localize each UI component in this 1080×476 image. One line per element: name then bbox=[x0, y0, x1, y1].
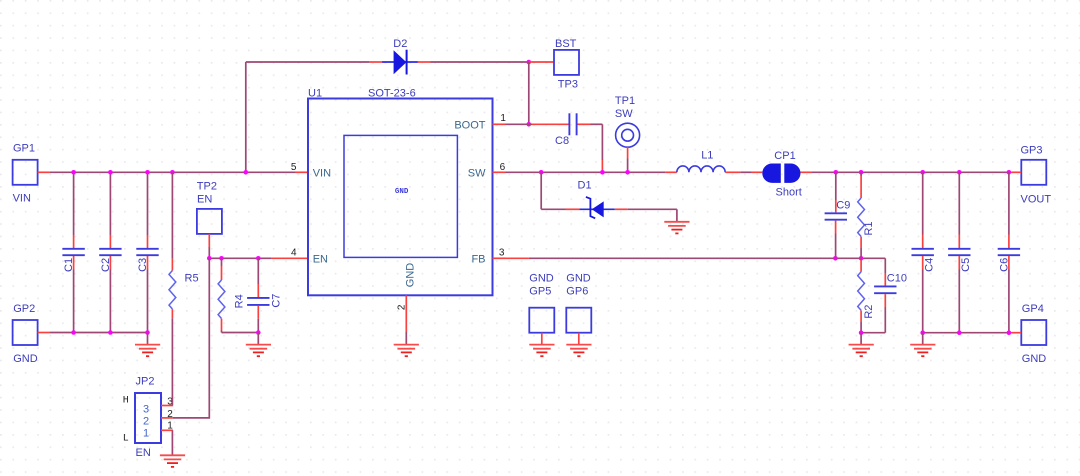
resistor R5 bbox=[169, 172, 199, 318]
svg-text:VOUT: VOUT bbox=[1021, 193, 1052, 205]
svg-text:TP2: TP2 bbox=[197, 181, 217, 193]
svg-text:3: 3 bbox=[499, 247, 505, 258]
capacitor C1 bbox=[62, 249, 84, 272]
svg-text:EN: EN bbox=[313, 254, 328, 266]
U1 pin 2 GND bbox=[396, 263, 416, 345]
node junction dot C7 bottom bbox=[256, 330, 261, 335]
svg-text:L1: L1 bbox=[701, 149, 713, 161]
resistor R2 bbox=[858, 258, 876, 332]
ground at GP5 bbox=[529, 345, 554, 357]
ground at D1 bbox=[664, 222, 689, 234]
svg-text:JP2: JP2 bbox=[136, 376, 155, 388]
U1 pin 3 FB bbox=[471, 247, 505, 265]
wire R4-C7 bottom bbox=[222, 332, 259, 334]
capacitor C5 bbox=[948, 172, 972, 332]
wire VIN rail bbox=[38, 171, 308, 173]
svg-text:GND: GND bbox=[404, 263, 416, 288]
svg-text:L: L bbox=[123, 433, 129, 444]
svg-text:C4: C4 bbox=[923, 258, 935, 272]
svg-text:BST: BST bbox=[555, 38, 577, 50]
wire JP2 pin 2 to EN node bbox=[173, 258, 209, 418]
svg-text:C5: C5 bbox=[960, 258, 972, 272]
capacitor C4 bbox=[912, 172, 936, 332]
svg-text:GP4: GP4 bbox=[1022, 303, 1044, 315]
svg-text:C3: C3 bbox=[137, 258, 149, 272]
U1 pin 5 VIN bbox=[291, 162, 331, 180]
svg-text:3: 3 bbox=[143, 403, 149, 415]
ground at C4 bbox=[910, 333, 935, 357]
svg-text:C1: C1 bbox=[63, 258, 75, 272]
capacitor C3 bbox=[136, 249, 158, 272]
svg-text:GP6: GP6 bbox=[566, 286, 588, 298]
JP2 pin 2 bbox=[161, 409, 173, 420]
port GP6 (GND) bbox=[566, 272, 591, 344]
ground at JP2 pin 1 bbox=[160, 455, 185, 467]
svg-text:GND: GND bbox=[1022, 353, 1047, 365]
svg-text:U1: U1 bbox=[308, 87, 322, 99]
node junction dots VIN rail bbox=[71, 170, 248, 175]
svg-text:1: 1 bbox=[500, 113, 506, 124]
ground at R2 bbox=[849, 333, 874, 357]
port GP5 (GND) bbox=[529, 272, 554, 344]
svg-text:GND: GND bbox=[529, 272, 554, 284]
port GP4 bbox=[1021, 303, 1046, 365]
test point TP1 SW bbox=[615, 95, 640, 173]
svg-text:CP1: CP1 bbox=[774, 150, 795, 162]
jumper JP2 bbox=[123, 376, 161, 459]
capacitor C2 bbox=[99, 249, 121, 272]
wire BST node to BOOT bbox=[528, 62, 530, 124]
test point TP3 BST bbox=[529, 38, 579, 91]
diode D1 (zener) bbox=[541, 172, 628, 218]
U1 pin 4 EN bbox=[291, 247, 328, 265]
port GP3 bbox=[1021, 144, 1052, 205]
svg-text:1: 1 bbox=[143, 427, 149, 439]
jumper CP1 Short bbox=[762, 150, 801, 198]
wire C2 top bbox=[109, 172, 111, 248]
PORTS-LEFT bbox=[13, 143, 1052, 366]
node junction dots VOUT rail bbox=[834, 170, 1012, 175]
wire C8 down to SW bbox=[601, 124, 603, 172]
node junction dots GND rail left bbox=[71, 330, 150, 335]
test point TP2 bbox=[197, 181, 222, 259]
svg-text:FB: FB bbox=[471, 254, 485, 266]
svg-text:GP1: GP1 bbox=[13, 143, 35, 155]
wire R2-C10 bottom bbox=[861, 332, 885, 334]
svg-text:R5: R5 bbox=[185, 273, 199, 285]
capacitor C8 bbox=[529, 113, 603, 147]
svg-text:C2: C2 bbox=[100, 258, 112, 272]
svg-text:GP5: GP5 bbox=[529, 286, 551, 298]
wire JP2 pin 1 to ground bbox=[171, 430, 173, 455]
svg-text:4: 4 bbox=[291, 247, 297, 258]
wire C3 top bbox=[147, 172, 149, 248]
diode D2 bbox=[369, 38, 431, 74]
wire L1 to CP1 bbox=[725, 171, 762, 173]
port GP1 bbox=[13, 143, 38, 205]
ground at R4/C7 bbox=[246, 333, 271, 357]
capacitor C7 bbox=[247, 258, 282, 332]
svg-text:2: 2 bbox=[143, 416, 149, 428]
svg-text:C6: C6 bbox=[998, 258, 1010, 272]
svg-text:D2: D2 bbox=[393, 38, 407, 50]
port GP2 bbox=[13, 303, 38, 365]
svg-text:R2: R2 bbox=[863, 305, 875, 319]
wire GND rail right bbox=[923, 332, 1022, 334]
wire GND rail left bbox=[38, 332, 148, 334]
wire R5 to JP2 pin 3 bbox=[171, 318, 173, 405]
svg-text:H: H bbox=[123, 396, 129, 407]
wire C1 bottom bbox=[73, 256, 75, 333]
svg-text:C7: C7 bbox=[270, 294, 282, 308]
svg-text:VIN: VIN bbox=[13, 192, 31, 204]
JP2 pin 1 bbox=[161, 420, 173, 431]
svg-text:SW: SW bbox=[468, 167, 486, 179]
svg-text:TP1: TP1 bbox=[615, 95, 635, 107]
svg-text:C9: C9 bbox=[836, 199, 850, 211]
svg-text:GP3: GP3 bbox=[1021, 144, 1043, 156]
svg-text:C10: C10 bbox=[887, 272, 907, 284]
svg-text:D1: D1 bbox=[578, 180, 592, 192]
U1 pin 1 BOOT bbox=[454, 113, 506, 132]
svg-text:GND: GND bbox=[566, 272, 591, 284]
svg-text:GP2: GP2 bbox=[13, 303, 35, 315]
capacitor C9 bbox=[825, 172, 851, 258]
svg-text:GND: GND bbox=[395, 188, 409, 196]
svg-text:5: 5 bbox=[291, 162, 297, 173]
svg-text:TP3: TP3 bbox=[558, 79, 578, 91]
JP2 pin 3 bbox=[161, 397, 173, 408]
node junction dot BST bbox=[527, 60, 532, 65]
node junction dots FB line bbox=[833, 256, 863, 261]
node junction dot R2 bottom bbox=[859, 330, 864, 335]
svg-text:1: 1 bbox=[167, 420, 173, 431]
ground at U1 pin 2 bbox=[394, 345, 419, 357]
wire D2 to BST node bbox=[431, 61, 529, 63]
svg-text:SW: SW bbox=[615, 108, 633, 120]
node junction dot BOOT bbox=[527, 122, 532, 127]
U1 pin 6 SW bbox=[468, 162, 506, 180]
ground at C3 bbox=[135, 333, 160, 357]
svg-text:SOT-23-6: SOT-23-6 bbox=[368, 87, 416, 99]
wire C1 top bbox=[73, 172, 75, 248]
resistor R1 bbox=[858, 172, 876, 258]
resistor R4 bbox=[218, 258, 245, 332]
wire D1 anode to ground bbox=[628, 209, 677, 222]
svg-text:R4: R4 bbox=[234, 294, 246, 308]
node junction dots EN line bbox=[207, 256, 261, 261]
svg-text:2: 2 bbox=[167, 409, 173, 420]
svg-text:EN: EN bbox=[197, 193, 212, 205]
wire C3 bottom bbox=[147, 256, 149, 333]
svg-text:6: 6 bbox=[500, 162, 506, 173]
svg-text:GND: GND bbox=[13, 353, 38, 365]
WIRES-VIN-NET bbox=[38, 62, 369, 335]
op-amp/regulator U1 SOT-23-6 bbox=[308, 87, 493, 295]
wire FB line bbox=[506, 257, 886, 259]
wire SW rail bbox=[506, 171, 677, 173]
svg-text:VIN: VIN bbox=[313, 167, 331, 179]
wire BOOT pin to node bbox=[506, 123, 529, 125]
svg-text:R1: R1 bbox=[863, 221, 875, 235]
wire C2 bottom bbox=[109, 256, 111, 333]
svg-text:Short: Short bbox=[776, 186, 802, 198]
wire D2 branch vertical bbox=[245, 62, 247, 172]
ground at GP6 bbox=[566, 345, 591, 357]
node junction dots SW rail bbox=[539, 170, 630, 175]
svg-text:EN: EN bbox=[136, 447, 151, 459]
wire EN line bbox=[209, 257, 308, 259]
node junction dots GND rail right bbox=[920, 330, 1011, 335]
capacitor C6 bbox=[998, 172, 1020, 332]
capacitor C10 bbox=[874, 258, 907, 332]
svg-text:BOOT: BOOT bbox=[454, 119, 485, 131]
svg-text:C8: C8 bbox=[555, 135, 569, 147]
wire top rail to D2 bbox=[246, 61, 369, 63]
inductor L1 bbox=[677, 149, 725, 172]
wire VOUT rail bbox=[801, 171, 1022, 173]
